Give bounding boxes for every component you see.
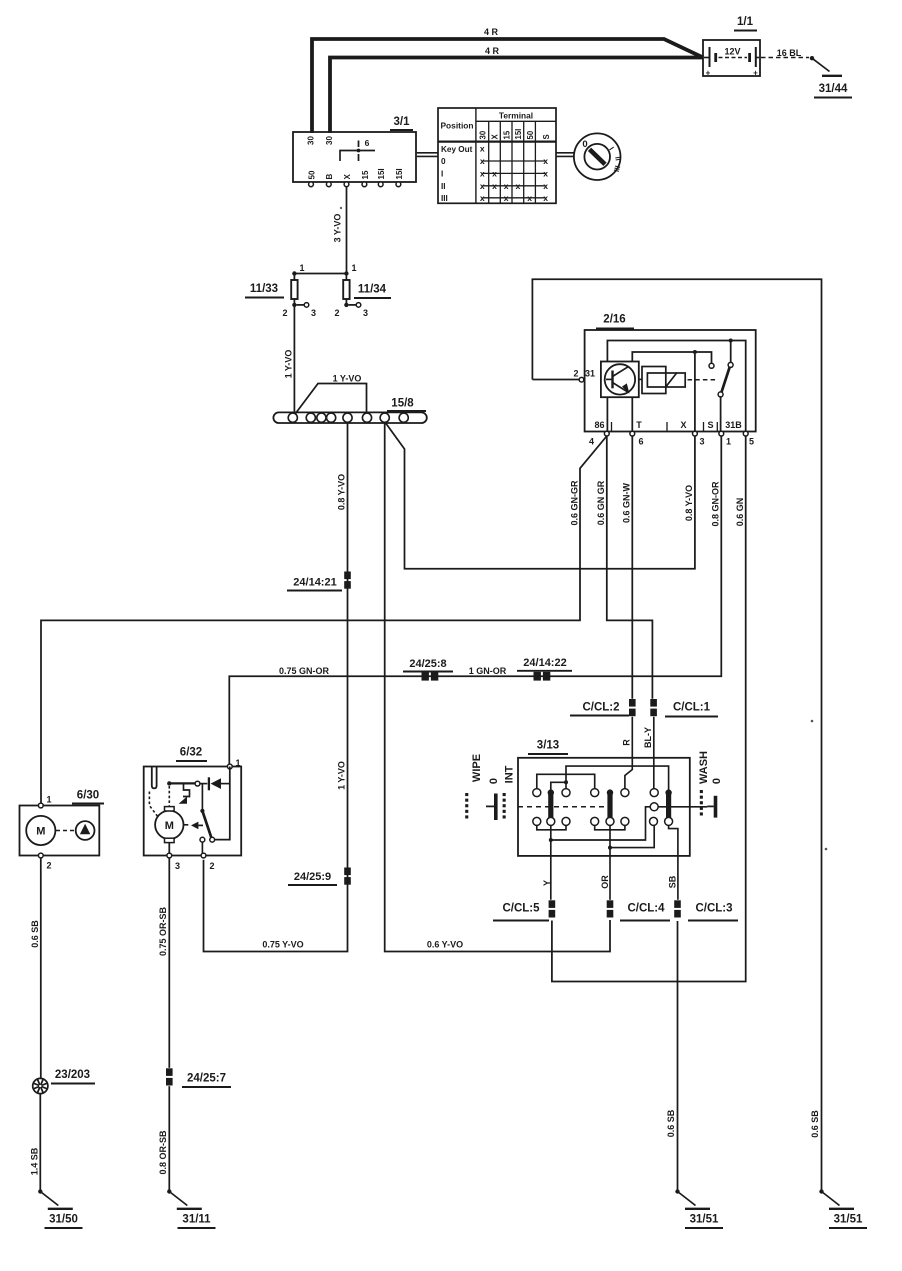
svg-text:III: III (441, 194, 448, 203)
svg-text:0.6 GN-W: 0.6 GN-W (622, 482, 632, 523)
svg-text:x: x (504, 193, 509, 203)
svg-text:15I: 15I (377, 168, 386, 179)
svg-text:1 Y-VO: 1 Y-VO (333, 374, 362, 384)
svg-text:31B: 31B (725, 420, 742, 430)
svg-text:15I: 15I (395, 168, 404, 179)
svg-text:T: T (636, 420, 642, 430)
svg-text:15: 15 (502, 130, 511, 139)
svg-text:0: 0 (488, 778, 500, 784)
svg-text:30: 30 (307, 136, 316, 145)
svg-text:x: x (480, 193, 485, 203)
svg-text:0: 0 (582, 139, 587, 150)
svg-text:30: 30 (479, 130, 488, 139)
svg-text:3 Y-VO: 3 Y-VO (333, 214, 343, 243)
svg-text:1: 1 (352, 263, 357, 273)
svg-text:0.8 Y-VO: 0.8 Y-VO (684, 485, 694, 521)
svg-text:0.6 SB: 0.6 SB (30, 920, 40, 948)
svg-text:1: 1 (236, 758, 241, 768)
svg-text:31/11: 31/11 (182, 1214, 211, 1226)
svg-text:1: 1 (47, 795, 52, 805)
svg-text:1: 1 (300, 263, 305, 273)
svg-text:3/13: 3/13 (537, 740, 559, 752)
svg-text:24/25:7: 24/25:7 (187, 1073, 226, 1085)
svg-text:X: X (680, 420, 686, 430)
svg-text:OR: OR (600, 875, 610, 889)
svg-text:11/33: 11/33 (250, 283, 278, 295)
svg-text:31: 31 (585, 369, 595, 379)
svg-text:3/1: 3/1 (394, 116, 411, 128)
svg-text:0.75 Y-VO: 0.75 Y-VO (262, 940, 303, 950)
svg-text:M: M (165, 820, 174, 832)
svg-text:6: 6 (638, 437, 643, 447)
svg-text:+: + (706, 69, 711, 78)
svg-text:31/44: 31/44 (819, 83, 848, 95)
svg-text:INT: INT (504, 765, 516, 783)
svg-text:+: + (753, 69, 758, 78)
svg-text:x: x (516, 181, 521, 191)
svg-text:0.75 OR-SB: 0.75 OR-SB (158, 906, 168, 956)
svg-text:0: 0 (441, 157, 446, 166)
svg-text:x: x (480, 169, 485, 179)
svg-text:24/25:8: 24/25:8 (409, 658, 446, 670)
svg-text:x: x (543, 169, 548, 179)
svg-text:2: 2 (282, 308, 287, 318)
svg-text:4 R: 4 R (484, 27, 499, 37)
svg-text:1.4 SB: 1.4 SB (30, 1147, 40, 1175)
svg-text:1/1: 1/1 (737, 16, 754, 28)
svg-text:0.6 SB: 0.6 SB (666, 1109, 676, 1137)
svg-text:15I: 15I (514, 129, 523, 140)
svg-text:15: 15 (361, 170, 370, 179)
svg-text:50: 50 (526, 130, 535, 139)
svg-text:R: R (621, 739, 631, 746)
svg-text:0.6 Y-VO: 0.6 Y-VO (427, 940, 463, 950)
svg-text:15/8: 15/8 (391, 398, 414, 410)
svg-text:X: X (343, 174, 352, 180)
svg-text:0.8 Y-VO: 0.8 Y-VO (336, 474, 346, 510)
svg-text:x: x (480, 181, 485, 191)
svg-text:3: 3 (699, 437, 704, 447)
svg-text:Terminal: Terminal (499, 110, 533, 120)
svg-text:0: 0 (711, 778, 723, 784)
svg-text:11/34: 11/34 (358, 284, 387, 296)
svg-text:0.6 GN: 0.6 GN (735, 498, 745, 527)
svg-text:0.6 GN-GR: 0.6 GN-GR (569, 480, 579, 526)
svg-text:WASH: WASH (698, 751, 710, 784)
svg-text:86: 86 (594, 420, 604, 430)
svg-text:5: 5 (749, 437, 754, 447)
svg-text:0.6 GN GR: 0.6 GN GR (596, 480, 606, 525)
svg-text:31/51: 31/51 (690, 1214, 719, 1226)
svg-text:x: x (504, 181, 509, 191)
svg-text:x: x (492, 181, 497, 191)
svg-text:31/50: 31/50 (49, 1214, 78, 1226)
svg-text:12V: 12V (724, 47, 740, 57)
svg-text:Key Out: Key Out (441, 145, 473, 154)
svg-text:x: x (480, 144, 485, 154)
svg-text:4 R: 4 R (485, 46, 500, 56)
svg-text:x: x (543, 181, 548, 191)
svg-text:16 BL: 16 BL (777, 48, 802, 58)
svg-text:23/203: 23/203 (55, 1069, 90, 1081)
svg-text:30: 30 (325, 136, 334, 145)
svg-text:x: x (543, 193, 548, 203)
svg-text:3: 3 (363, 308, 368, 318)
svg-text:C/CL:3: C/CL:3 (695, 903, 732, 915)
svg-text:WIPE: WIPE (471, 754, 483, 782)
svg-text:6: 6 (365, 138, 370, 148)
svg-text:24/25:9: 24/25:9 (294, 871, 331, 883)
svg-text:SB: SB (668, 875, 678, 888)
svg-text:x: x (492, 169, 497, 179)
svg-text:0.8 GN-OR: 0.8 GN-OR (711, 481, 721, 527)
svg-text:S: S (707, 420, 713, 430)
svg-text:24/14:21: 24/14:21 (293, 577, 336, 589)
svg-text:1 GN-OR: 1 GN-OR (469, 666, 507, 676)
svg-text:X: X (491, 134, 500, 140)
svg-text:3: 3 (175, 861, 180, 871)
svg-text:0.6 SB: 0.6 SB (810, 1110, 820, 1138)
svg-text:Position: Position (440, 121, 473, 131)
svg-text:2: 2 (573, 369, 578, 379)
svg-text:II: II (441, 182, 446, 191)
svg-text:B: B (325, 174, 334, 180)
svg-text:2: 2 (210, 861, 215, 871)
svg-text:C/CL:5: C/CL:5 (502, 903, 540, 915)
svg-text:1 Y-VO: 1 Y-VO (336, 761, 346, 790)
svg-text:0.8 OR-SB: 0.8 OR-SB (158, 1130, 168, 1175)
svg-text:0.75 GN-OR: 0.75 GN-OR (279, 666, 330, 676)
svg-text:C/CL:4: C/CL:4 (627, 903, 665, 915)
svg-text:2/16: 2/16 (603, 314, 625, 326)
svg-text:6/32: 6/32 (180, 747, 202, 759)
svg-text:2: 2 (47, 861, 52, 871)
svg-text:x: x (480, 156, 485, 166)
svg-text:2: 2 (334, 308, 339, 318)
svg-text:6/30: 6/30 (77, 790, 99, 802)
svg-text:1: 1 (726, 437, 731, 447)
svg-text:C/CL:2: C/CL:2 (582, 702, 619, 714)
svg-text:S: S (542, 134, 551, 139)
svg-text:I: I (441, 170, 443, 179)
svg-text:M: M (36, 826, 45, 838)
svg-text:1 Y-VO: 1 Y-VO (284, 350, 294, 379)
svg-text:x: x (527, 193, 532, 203)
svg-text:3: 3 (311, 308, 316, 318)
svg-text:31/51: 31/51 (834, 1214, 863, 1226)
svg-text:4: 4 (589, 437, 594, 447)
svg-text:50: 50 (307, 170, 316, 179)
svg-text:BL-Y: BL-Y (643, 727, 653, 748)
svg-text:24/14:22: 24/14:22 (523, 657, 566, 669)
svg-text:x: x (543, 156, 548, 166)
svg-text:Y: Y (542, 880, 552, 886)
svg-text:C/CL:1: C/CL:1 (673, 702, 711, 714)
